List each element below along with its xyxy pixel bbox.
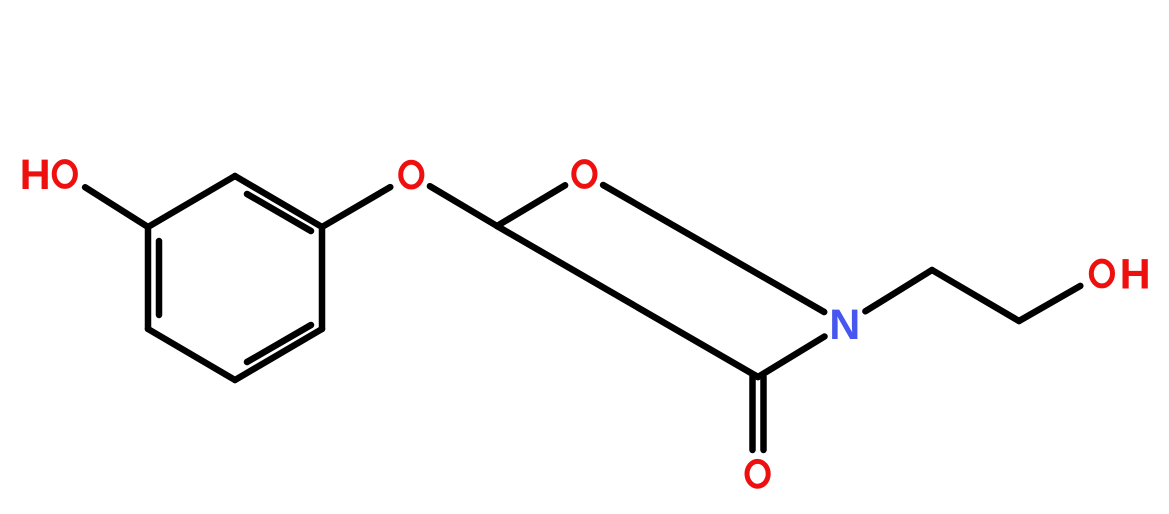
bond z2-OH — [1019, 286, 1080, 321]
benzene ring edge A-F — [148, 176, 235, 227]
benzene ring edge B-A — [145, 227, 152, 329]
bond C3-N (amide) — [758, 337, 825, 378]
atom label O1 (ether) — [401, 162, 422, 187]
benzene ring edge D-C — [235, 329, 322, 380]
bond O2-N (through CH2 CH2) — [603, 185, 824, 312]
benzene ring edge F-E — [235, 176, 322, 227]
bond E-O1 (ring to ether O) — [322, 187, 390, 227]
atom label HO (phenol): O glyph — [54, 162, 75, 187]
bond m-C3 (through CH2 CH2) — [497, 226, 758, 377]
bond z1-z2 — [932, 270, 1019, 321]
aromatic inner line A-B — [156, 241, 163, 315]
aromatic inner line C-D — [247, 325, 311, 362]
svg-text:H: H — [20, 151, 51, 199]
aromatic inner line F-E — [247, 194, 311, 231]
svg-text:H: H — [1120, 251, 1151, 299]
atom label O3 (carbonyl) — [747, 461, 768, 486]
benzene ring edge E-D — [319, 227, 326, 329]
double bond C3=O3 line 2 — [760, 377, 767, 450]
double bond C3=O3 line 1 — [749, 377, 756, 450]
bond N-z1 — [865, 270, 932, 311]
bond HO-C1 (phenol O to ring) — [85, 187, 148, 227]
bond m-O2 — [497, 185, 565, 226]
svg-text:N: N — [829, 301, 860, 349]
benzene ring edge C-B — [148, 329, 235, 380]
atom label O2 (ring ether) — [574, 162, 595, 187]
bond O1-m — [430, 186, 497, 226]
atom label OH (hydroxyethyl): O glyph — [1091, 261, 1112, 286]
